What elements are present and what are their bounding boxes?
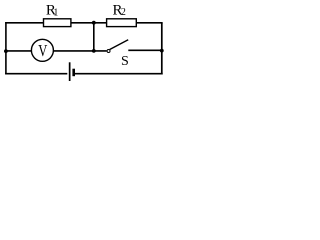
svg-text:1: 1 — [53, 7, 58, 18]
switch S blade — [110, 40, 129, 50]
svg-text:S: S — [121, 54, 129, 69]
svg-text:V: V — [38, 42, 47, 60]
wire top-right segment — [136, 22, 162, 24]
wire bottom-left segment — [5, 73, 67, 75]
wire middle-left segment — [6, 50, 32, 52]
node junction dot on middle wire — [92, 49, 96, 53]
svg-text:2: 2 — [121, 7, 126, 18]
node junction dot on top wire — [92, 21, 96, 25]
wire bottom-right segment — [75, 73, 163, 75]
voltmeter V — [31, 39, 53, 61]
resistor R1 — [44, 19, 71, 27]
resistor R2 — [107, 19, 137, 27]
node junction dot on left wire — [4, 49, 8, 53]
wire vertical link between top and middle — [93, 23, 95, 51]
wire left side — [5, 22, 7, 74]
node junction dot on right wire — [160, 49, 164, 53]
battery negative plate (short thick) — [72, 69, 75, 77]
wire middle-right segment — [128, 49, 162, 51]
wire middle-center segment — [53, 50, 106, 52]
wire right side — [161, 23, 163, 75]
switch S pivot — [107, 49, 110, 52]
wire top-middle segment — [71, 22, 107, 24]
battery positive plate (long) — [69, 62, 71, 81]
wire top-left segment — [5, 22, 43, 24]
